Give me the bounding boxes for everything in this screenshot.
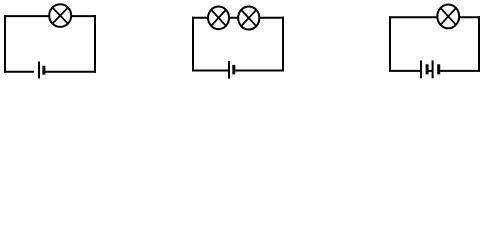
lamp L4 <box>437 5 459 29</box>
circuit 2: single cell with two lamps in series <box>192 6 284 78</box>
wire: circuit 1 top conductor <box>4 15 96 17</box>
cell B3b positive plate (long) <box>432 60 434 78</box>
circuit 1: single cell with one lamp <box>4 4 96 78</box>
wire: circuit 2 bottom conductor left segment <box>192 70 228 72</box>
cell B3b negative plate (short) <box>437 64 440 74</box>
cell B1 positive plate (long) <box>38 62 40 79</box>
wire: circuit 3 left conductor <box>389 16 391 72</box>
circuit 3: two-cell battery with one lamp <box>389 5 480 79</box>
wire: circuit 2 top conductor <box>192 17 284 19</box>
cell B1 negative plate (short) <box>42 66 45 75</box>
lamp L1 <box>49 4 71 27</box>
wire: circuit 1 right conductor <box>94 15 96 73</box>
wire: circuit 1 left conductor <box>4 15 6 73</box>
wire: circuit 1 bottom conductor right segment <box>45 71 96 73</box>
wire: circuit 3 right conductor <box>478 16 480 72</box>
wire: circuit 3 top conductor <box>389 16 480 18</box>
lamp L2 <box>208 6 229 29</box>
cell B2 positive plate (long) <box>228 61 230 79</box>
wire: circuit 2 bottom conductor right segment <box>235 70 284 72</box>
cell B3a negative plate (short) <box>426 64 429 74</box>
wire: circuit 3 bottom conductor left segment <box>389 70 421 72</box>
cell B2 negative plate (short) <box>232 65 235 75</box>
wire: circuit 2 left conductor <box>192 17 194 72</box>
wire: circuit 2 right conductor <box>282 17 284 72</box>
wire: circuit 3 bottom conductor right segment <box>439 70 480 72</box>
wire: circuit 1 bottom conductor left segment <box>4 71 34 73</box>
lamp L3 <box>238 6 259 29</box>
wire: circuit 3 bottom conductor segment between cells <box>427 70 433 72</box>
cell B3a positive plate (long) <box>420 60 422 78</box>
